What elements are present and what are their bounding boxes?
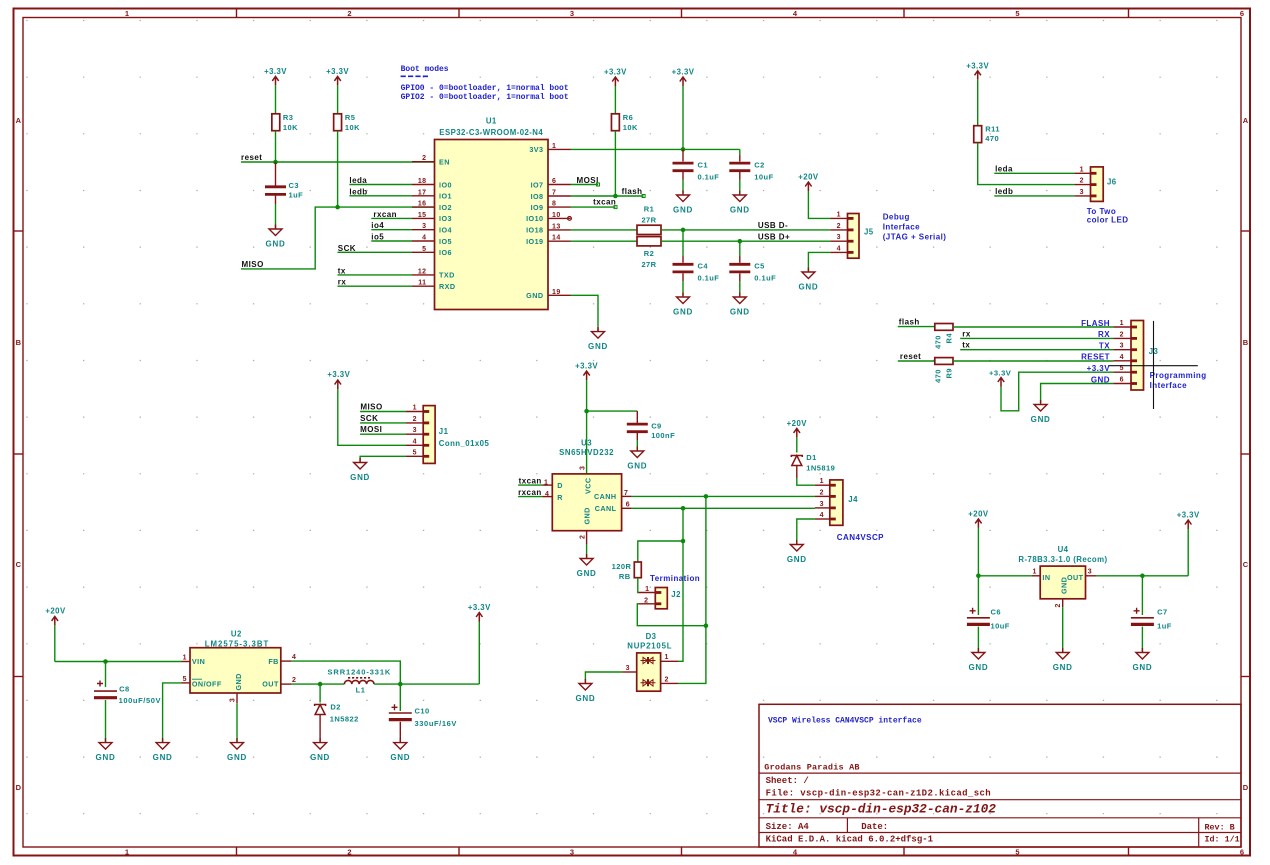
svg-text:color LED: color LED (1087, 216, 1129, 225)
svg-text:Boot modes: Boot modes (401, 65, 449, 74)
svg-text:470: 470 (934, 369, 943, 383)
svg-text:+3.3V: +3.3V (604, 68, 627, 77)
J3 pin 4 RESET (1081, 353, 1131, 362)
U1 pin 7 IO8 (531, 190, 571, 201)
ground below ON/OFF (156, 738, 169, 749)
svg-text:SRR1240-331K: SRR1240-331K (328, 668, 392, 677)
svg-text:5: 5 (1015, 9, 1019, 18)
svg-text:J2: J2 (671, 590, 681, 599)
wire CANH to J4 (632, 495, 815, 497)
label rx / wire to J3 pin2 (960, 329, 1113, 338)
svg-text:Size: A4: Size: A4 (766, 822, 810, 832)
transistor D3 NUP2105L body (627, 632, 672, 691)
svg-text:MOSI: MOSI (360, 425, 382, 434)
svg-text:GND: GND (1053, 663, 1073, 672)
svg-text:LM2575-3.3BT: LM2575-3.3BT (205, 640, 269, 649)
svg-text:1N5819: 1N5819 (806, 463, 835, 472)
svg-text:MISO: MISO (242, 260, 264, 269)
svg-text:3: 3 (1120, 343, 1124, 350)
cursor crosshair (1109, 321, 1198, 409)
U1 pin 3 IO4 (412, 223, 452, 234)
wire R4 to J3 pin1 (953, 326, 1113, 328)
svg-text:KiCad E.D.A. kicad 6.0.2+dfsg: KiCad E.D.A. kicad 6.0.2+dfsg-1 (766, 835, 934, 845)
wire L1 to +3.3V (374, 683, 479, 685)
svg-text:VSCP Wireless CAN4VSCP interfa: VSCP Wireless CAN4VSCP interface (768, 717, 922, 726)
svg-text:0.1uF: 0.1uF (698, 274, 720, 283)
label flash / wire from IO8 (571, 187, 646, 197)
svg-text:10uF: 10uF (991, 622, 1010, 631)
svg-text:IO6: IO6 (439, 248, 452, 257)
svg-text:GND: GND (627, 462, 647, 471)
svg-text:J4: J4 (848, 495, 858, 504)
svg-text:FLASH: FLASH (1081, 319, 1110, 328)
svg-text:IO5: IO5 (439, 237, 452, 246)
junction L1/C10 (398, 682, 403, 687)
svg-text:U1: U1 (486, 117, 497, 126)
wire C1 to GND (682, 172, 684, 180)
junction CANL (681, 506, 686, 511)
junction D-/C4 (681, 228, 686, 233)
svg-text:IO8: IO8 (531, 192, 544, 201)
svg-text:1uF: 1uF (1157, 622, 1172, 631)
svg-text:CANL: CANL (595, 504, 617, 513)
wire RB branch (638, 541, 683, 562)
svg-text:2: 2 (292, 677, 296, 684)
svg-text:U3: U3 (581, 438, 592, 447)
J3 pin 1 FLASH (1081, 319, 1131, 328)
svg-text:R-78B3.3-1.0 (Recom): R-78B3.3-1.0 (Recom) (1018, 555, 1107, 564)
junction D+/C5 (738, 239, 743, 244)
svg-text:A: A (1243, 116, 1249, 125)
svg-text:GND: GND (1060, 577, 1069, 594)
label tx / wire to TXD (338, 266, 413, 275)
op-amp U1 ESP32-C3-WROOM-02-N4 body (435, 117, 549, 310)
svg-text:B: B (16, 338, 22, 347)
D3 pin 2 (661, 676, 678, 683)
svg-text:IO2: IO2 (439, 203, 452, 212)
resistor R6 (611, 113, 638, 132)
svg-text:SCK: SCK (360, 414, 378, 423)
svg-text:IO19: IO19 (526, 237, 543, 246)
U1 pin 12 TXD (412, 268, 455, 279)
ground below U2 (231, 738, 244, 749)
svg-text:16: 16 (418, 201, 427, 208)
svg-text:3: 3 (580, 466, 587, 470)
svg-text:R9: R9 (945, 368, 954, 379)
svg-text:GND: GND (96, 753, 116, 762)
svg-text:C9: C9 (651, 422, 662, 431)
wire J1 pin5 to GND (360, 456, 406, 461)
svg-text:C10: C10 (415, 707, 430, 716)
svg-text:RB: RB (619, 572, 631, 581)
svg-text:D: D (557, 481, 563, 490)
svg-text:MOSI: MOSI (577, 176, 599, 185)
svg-text:0.1uF: 0.1uF (754, 274, 776, 283)
wire flash to R4 (898, 326, 935, 328)
svg-text:GND: GND (787, 555, 807, 564)
svg-text:EN: EN (439, 158, 450, 167)
svg-text:R: R (557, 493, 563, 502)
svg-text:D: D (1243, 783, 1249, 792)
svg-text:rxcan: rxcan (373, 210, 397, 219)
svg-text:tx: tx (338, 266, 346, 275)
wire +20V to U2 VIN (55, 661, 182, 663)
svg-text:C4: C4 (698, 262, 709, 271)
svg-text:J6: J6 (1107, 177, 1117, 186)
wire USB D- (R1 to J5) (661, 229, 830, 231)
resistor RB 120R (612, 562, 642, 581)
svg-text:IO3: IO3 (439, 214, 452, 223)
wire up to +3.3V (U4) (1187, 529, 1189, 576)
svg-text:+20V: +20V (45, 607, 66, 616)
svg-text:GND: GND (153, 753, 173, 762)
svg-text:470: 470 (985, 134, 999, 143)
wire up to +3.3V (478, 622, 480, 685)
svg-text:27R: 27R (641, 260, 656, 269)
ground below C1 (677, 191, 690, 202)
wire C8 to GND (105, 700, 107, 742)
resistor R11 (974, 124, 1000, 143)
svg-text:2: 2 (837, 223, 841, 230)
svg-text:GND: GND (968, 663, 988, 672)
ground below C9 (631, 447, 644, 458)
svg-text:14: 14 (552, 235, 561, 242)
U3 pin 2 GND stub (580, 531, 587, 558)
svg-text:0.1uF: 0.1uF (698, 173, 720, 182)
resistor R1 (637, 205, 661, 235)
svg-text:3V3: 3V3 (529, 145, 543, 154)
svg-text:C7: C7 (1157, 608, 1168, 617)
svg-text:GND: GND (1091, 375, 1110, 384)
svg-text:USB D-: USB D- (758, 221, 788, 230)
wire 3V3 pin to C1/C2 (571, 148, 740, 150)
svg-text:GPIO2 - 0=bootloader, 1=normal: GPIO2 - 0=bootloader, 1=normal boot (401, 93, 569, 102)
J3 pin 6 GND (1091, 375, 1131, 384)
svg-text:GND: GND (390, 753, 410, 762)
J2 pin 2 (639, 597, 656, 604)
svg-text:C5: C5 (754, 262, 765, 271)
J3 pin 3 TX (1099, 342, 1131, 351)
svg-text:SCK: SCK (338, 244, 356, 253)
svg-text:IN: IN (1042, 573, 1050, 582)
svg-text:GND: GND (583, 507, 592, 524)
wire R6 to flash net (614, 131, 616, 196)
wire to C4 (682, 230, 684, 256)
U2 pin 1 VIN (182, 655, 191, 662)
ground below C6 (972, 648, 985, 659)
wire +20V to U4 IN (978, 575, 1031, 577)
svg-text:4: 4 (1120, 354, 1124, 361)
svg-text:ON/OFF: ON/OFF (192, 679, 222, 688)
svg-text:rxcan: rxcan (518, 488, 542, 497)
junction OUT/C7 (1140, 574, 1145, 579)
svg-text:FB: FB (268, 657, 278, 666)
svg-text:R4: R4 (945, 333, 954, 344)
U2 pin 2 OUT (281, 677, 296, 684)
svg-text:NUP2105L: NUP2105L (627, 642, 672, 651)
svg-text:+3.3V: +3.3V (468, 603, 491, 612)
svg-text:10uF: 10uF (754, 173, 773, 182)
wire R3 to reset net (275, 131, 277, 162)
diode D1 1N5819 (791, 453, 835, 473)
inductor L1 SRR1240-331K (328, 668, 392, 695)
power +20V (U4) (968, 509, 989, 575)
wire reset to U1 EN (241, 161, 435, 163)
J3 pin 5 +3.3V (1087, 364, 1131, 373)
svg-text:VIN: VIN (192, 657, 205, 666)
svg-text:4: 4 (413, 438, 417, 445)
U3 pin 7 CANH (622, 490, 632, 497)
svg-text:D: D (16, 783, 22, 792)
svg-text:10K: 10K (623, 123, 638, 132)
svg-text:7: 7 (552, 190, 556, 197)
svg-text:2: 2 (413, 416, 417, 423)
svg-text:1: 1 (1120, 320, 1124, 327)
wire CANL vertical to D3 pin1 (678, 541, 683, 661)
svg-text:Termination: Termination (650, 574, 700, 583)
junction CANL/RB branch (681, 539, 686, 544)
svg-text:6: 6 (552, 178, 556, 185)
junction R5/MISO/IO2 (335, 205, 340, 210)
U1 pin 1 3V3 (529, 143, 570, 154)
svg-text:Id: 1/1: Id: 1/1 (1205, 835, 1240, 845)
svg-text:GND: GND (1132, 663, 1152, 672)
ground below J5 (802, 268, 815, 279)
capacitor C8 (polarized) (94, 681, 161, 705)
resistor R2 (637, 237, 661, 269)
label rxcan / wire to IO3 (371, 210, 412, 219)
wire to C2 (739, 149, 741, 155)
svg-text:R3: R3 (283, 113, 294, 122)
svg-text:3: 3 (422, 223, 426, 230)
wire CANH vertical to D3 pin2 (678, 496, 706, 683)
svg-text:GND: GND (526, 291, 543, 300)
svg-text:GND: GND (577, 569, 597, 578)
svg-text:1: 1 (125, 848, 129, 857)
label rxcan / wire to U3 R (518, 488, 552, 498)
capacitor C7 (polarized) (1131, 576, 1172, 652)
svg-text:reset: reset (241, 153, 262, 162)
wire C9 to GND (636, 433, 638, 440)
op-amp U4 R-78B3.3-1.0 body (1018, 545, 1107, 599)
svg-text:4: 4 (292, 654, 296, 661)
J1 pin 4 (406, 438, 423, 445)
svg-text:13: 13 (552, 223, 561, 230)
svg-text:reset: reset (900, 352, 921, 361)
svg-text:IO1: IO1 (439, 192, 452, 201)
D3 pin 3 (622, 665, 637, 672)
svg-text:Rev: B: Rev: B (1205, 823, 1235, 833)
junction +20V/C8 (103, 659, 108, 664)
svg-text:ESP32-C3-WROOM-02-N4: ESP32-C3-WROOM-02-N4 (439, 128, 543, 137)
connector J1 body (423, 406, 489, 464)
ground below D2 (314, 738, 327, 749)
svg-text:IO10: IO10 (526, 214, 543, 223)
svg-text:U4: U4 (1058, 545, 1069, 554)
svg-text:+3.3V: +3.3V (327, 370, 350, 379)
J4 pin 3 (815, 501, 830, 508)
J1 pin 3 (406, 427, 423, 434)
resistor R3 (272, 113, 298, 132)
power +3.3V (U3) (575, 362, 598, 412)
ground below U3 (580, 554, 593, 565)
svg-text:D2: D2 (330, 703, 341, 712)
svg-text:3: 3 (626, 665, 630, 672)
power +3.3V (3V3 rail) (672, 68, 695, 150)
op-amp U2 LM2575-3.3BT body (190, 630, 281, 694)
capacitor C5 (729, 262, 776, 283)
svg-text:CANH: CANH (594, 492, 617, 501)
svg-text:2: 2 (1080, 178, 1084, 185)
svg-text:ledb: ledb (995, 187, 1013, 196)
svg-text:2: 2 (347, 9, 351, 18)
label MOSI / wire to J1 pin3 (360, 425, 406, 434)
svg-text:GND: GND (588, 342, 608, 351)
svg-text:3: 3 (820, 501, 824, 508)
svg-text:6: 6 (1240, 848, 1244, 857)
svg-text:ledb: ledb (349, 187, 367, 196)
label txcan / wire from IO9 (571, 198, 618, 209)
svg-text:+3.3V: +3.3V (1177, 511, 1200, 520)
label txcan / wire to U3 D (518, 476, 552, 486)
U1 pin 18 IO0 (412, 178, 452, 189)
svg-text:19: 19 (552, 289, 561, 296)
svg-text:15: 15 (418, 212, 427, 219)
label leda / wire to IO0 (349, 176, 412, 185)
svg-text:1: 1 (1033, 568, 1037, 575)
svg-text:CAN4VSCP: CAN4VSCP (837, 533, 884, 542)
wire J4 pin4 to GND (797, 519, 815, 544)
U1 pin 5 IO6 (412, 246, 452, 257)
junction OUT/D2 (318, 682, 323, 687)
wire J2 pin2 to CANH vertical (637, 604, 706, 626)
wire MISO net (241, 207, 435, 269)
junction J2 return/CANH vertical (704, 623, 709, 628)
power +3.3V (U4 output) (1185, 520, 1191, 529)
note: boot modes (401, 65, 569, 102)
svg-text:100uF/50V: 100uF/50V (119, 696, 162, 705)
ground below C3 (269, 225, 282, 236)
J3 pin 2 RX (1098, 330, 1131, 339)
svg-text:(JTAG + Serial): (JTAG + Serial) (883, 233, 947, 242)
U4 pin 1 IN (1032, 568, 1041, 576)
ground below C8 (99, 738, 112, 749)
svg-text:GND: GND (730, 206, 750, 215)
wire J5 pin4 to GND (808, 252, 830, 271)
svg-text:USB D+: USB D+ (758, 232, 790, 241)
svg-text:J5: J5 (864, 227, 874, 236)
svg-text:5: 5 (1015, 848, 1019, 857)
svg-text:IO7: IO7 (531, 180, 544, 189)
U1 pin 6 IO7 (531, 178, 571, 189)
svg-text:Grodans Paradis AB: Grodans Paradis AB (764, 763, 859, 773)
wire D1 to J4 pin1 (797, 466, 815, 485)
power +3.3V (R11) (966, 61, 989, 125)
connector J4 body (830, 480, 858, 525)
junction +20V/C6 (976, 574, 981, 579)
connector J5 body (848, 214, 874, 259)
svg-text:RX: RX (1098, 330, 1110, 339)
J4 pin 1 (815, 478, 830, 485)
U1 IO10 no-connect (568, 217, 572, 221)
J5 pin 3 (830, 234, 847, 241)
ground below C10 (394, 738, 407, 749)
U1 pin 19 GND (526, 289, 570, 300)
svg-text:L1: L1 (356, 685, 366, 694)
ground below C2 (733, 191, 746, 202)
svg-text:C6: C6 (991, 608, 1002, 617)
capacitor C10 (polarized) (389, 684, 457, 742)
wire D3 pin3 to GND (585, 672, 622, 683)
svg-text:A: A (16, 116, 22, 125)
U1 GND wire to ground (571, 295, 599, 331)
U1 pin 16 IO2 (412, 201, 452, 212)
svg-text:2: 2 (644, 597, 648, 604)
J5 pin 1 (830, 211, 847, 218)
svg-text:+3.3V: +3.3V (1087, 364, 1111, 373)
label SCK / wire to J1 pin2 (360, 414, 406, 423)
power +20V (debug) (798, 173, 819, 192)
svg-text:100nF: 100nF (651, 431, 675, 440)
svg-text:470: 470 (934, 335, 943, 349)
svg-text:MISO: MISO (360, 403, 382, 412)
resistor R4 (934, 324, 954, 350)
J6 pin 2 (1074, 178, 1090, 185)
U1 pin 2 EN (412, 155, 450, 166)
wire IO18 to R1 (571, 229, 638, 231)
wire reset to R9 (898, 360, 935, 362)
svg-text:+3.3V: +3.3V (989, 369, 1012, 378)
wire +3.3V to J3 pin5 (1001, 372, 1113, 411)
svg-text:+20V: +20V (968, 509, 989, 518)
wire CANL to J4 (632, 507, 815, 509)
svg-text:R6: R6 (623, 113, 634, 122)
svg-text:5: 5 (422, 246, 426, 253)
wire OUT to +3.3V (1097, 575, 1189, 577)
wire to C5 (739, 241, 741, 256)
wire IO19 to R2 (571, 240, 638, 242)
J4 pin 2 (815, 489, 830, 496)
svg-text:5: 5 (413, 449, 417, 456)
junction U3 VCC/C9 (584, 409, 589, 414)
svg-text:6: 6 (626, 502, 630, 509)
svg-text:+20V: +20V (798, 173, 819, 182)
svg-text:11: 11 (418, 280, 426, 287)
U4 pin 3 OUT (1086, 568, 1097, 576)
svg-text:+3.3V: +3.3V (672, 68, 695, 77)
svg-text:18: 18 (418, 178, 427, 185)
U2 pin 4 FB (281, 654, 296, 661)
svg-text:2: 2 (665, 676, 669, 683)
U1 pin 13 IO18 (526, 223, 570, 234)
svg-text:GND: GND (575, 694, 595, 703)
svg-text:C: C (16, 560, 22, 569)
svg-text:rx: rx (962, 329, 971, 338)
wire OUT to L1 (291, 683, 344, 685)
junction reset/C3 (273, 160, 278, 165)
svg-text:File: vscp-din-esp32-can-z1D2.: File: vscp-din-esp32-can-z1D2.kicad_sch (766, 789, 991, 799)
svg-text:1: 1 (544, 479, 548, 486)
svg-text:3: 3 (230, 698, 237, 702)
power +3.3V (programming) (989, 369, 1012, 387)
junction flash/R6 (613, 194, 618, 199)
note: Programming Interface (1150, 371, 1207, 390)
wire ON/OFF to GND (163, 683, 182, 742)
svg-text:OUT: OUT (262, 679, 279, 688)
svg-text:4: 4 (837, 245, 841, 252)
svg-text:Debug: Debug (883, 213, 910, 222)
power +3.3V (R6 pullup) (604, 68, 627, 114)
